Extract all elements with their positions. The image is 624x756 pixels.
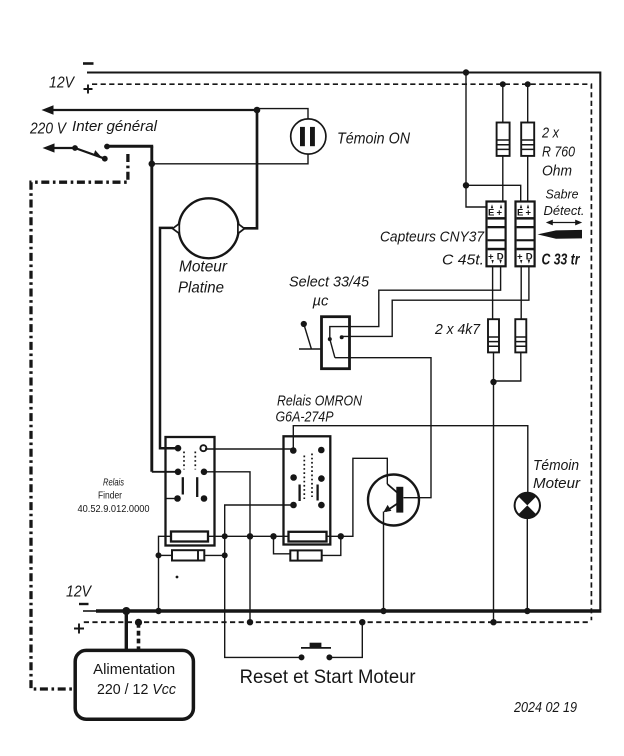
resistor R4 4k7 bbox=[515, 319, 526, 352]
lamp Temoin ON bbox=[291, 119, 326, 154]
wire motor left terminal to relay finder top-left bbox=[160, 228, 178, 448]
wire omron subrect right bbox=[322, 536, 341, 555]
svg-text:Détect.: Détect. bbox=[544, 204, 585, 218]
node lamp on - rail bbox=[524, 608, 530, 614]
wire emitter to - rail bbox=[383, 512, 385, 612]
transistor Q1 emitter lead with arrow bbox=[386, 504, 398, 512]
label Capteurs CNY37 / C 45t. / C 33 tr bbox=[380, 229, 580, 269]
arrowhead 220V feed bbox=[43, 143, 55, 152]
lamp temoin moteur bbox=[515, 493, 540, 518]
svg-text:E: E bbox=[488, 208, 494, 219]
arrowhead 12V feed bbox=[42, 105, 54, 115]
wire capteur2 D to select bbox=[342, 266, 529, 338]
node switch pole contact bbox=[72, 145, 78, 151]
relay K2 OMRON body bbox=[284, 436, 331, 544]
svg-text:Moteur: Moteur bbox=[179, 259, 228, 276]
svg-text:R 760: R 760 bbox=[542, 144, 576, 161]
wire capteur2 + to 4k7b bbox=[520, 266, 522, 319]
wire finder LL stub bbox=[166, 498, 178, 500]
switch select 33/45 body bbox=[322, 317, 350, 369]
node lamp return junction bbox=[149, 161, 156, 168]
wire motor right terminal to 12V feed bbox=[244, 110, 257, 228]
resistor R1 760 Ohm bbox=[497, 123, 510, 156]
wire select common stub bbox=[299, 348, 322, 350]
relay K1 auxiliary block bbox=[172, 550, 204, 560]
motor M1 platine body bbox=[179, 198, 239, 258]
wire capteur1 + to 4k7a bbox=[492, 266, 494, 319]
svg-text:220 / 12 Vcc: 220 / 12 Vcc bbox=[97, 682, 177, 698]
node switch blade end contact bbox=[102, 156, 108, 162]
label date bbox=[513, 700, 577, 716]
wire R1 to sensor U1 + pin bbox=[502, 156, 504, 202]
svg-text:Moteur: Moteur bbox=[533, 475, 581, 492]
node select contact 45 bbox=[340, 335, 344, 339]
wire feed to Temoin ON top bbox=[257, 109, 308, 120]
svg-text:2024 02 19: 2024 02 19 bbox=[513, 700, 577, 716]
svg-text:2 x: 2 x bbox=[541, 125, 559, 142]
node finder MR on + rail bbox=[247, 619, 253, 625]
node emitter on - rail bbox=[380, 608, 386, 614]
wire finder MR to + rail bbox=[204, 472, 250, 622]
button S2 reset/start plunger bbox=[310, 643, 322, 648]
node 12V+ bottom dashed rail bbox=[84, 621, 589, 623]
svg-text:Relais OMRON: Relais OMRON bbox=[277, 393, 362, 410]
node R1 on + rail bbox=[500, 81, 506, 87]
svg-text:Inter général: Inter général bbox=[72, 118, 158, 135]
node finder coil on - rail bbox=[155, 608, 161, 614]
node select contact 33 bbox=[328, 337, 332, 341]
node R2 on + rail bbox=[525, 81, 531, 87]
label Temoin Moteur bbox=[533, 457, 581, 492]
label Relais OMRON G6A-274P bbox=[276, 393, 363, 426]
wire button to + rail bbox=[329, 622, 362, 657]
label 2 x 4k7 bbox=[434, 321, 481, 338]
transistor Q1 base bar bbox=[396, 487, 403, 513]
svg-text:Platine: Platine bbox=[178, 280, 224, 297]
svg-text:µc: µc bbox=[313, 293, 329, 310]
svg-text:Témoin: Témoin bbox=[533, 457, 579, 474]
wire omron subrect left bbox=[274, 536, 291, 554]
motor right brush terminal bbox=[238, 224, 245, 234]
node 12V- top rail bbox=[87, 73, 600, 611]
node alimentation plus on + rail bbox=[135, 619, 142, 626]
svg-text:Select 33/45: Select 33/45 bbox=[289, 274, 370, 291]
node omron aux left junction bbox=[270, 533, 276, 539]
resistor R3 4k7 bbox=[488, 319, 499, 352]
sabre blade bbox=[538, 230, 583, 239]
node switch output contact bbox=[104, 144, 110, 150]
wire finder aux left bbox=[159, 554, 173, 556]
svg-text:220 V: 220 V bbox=[29, 121, 67, 138]
label 220 V bbox=[29, 118, 158, 138]
node button right contact bbox=[326, 654, 332, 660]
svg-text:Alimentation: Alimentation bbox=[93, 662, 175, 678]
switch blade inter general bbox=[75, 148, 105, 159]
node junction coil line x250 bbox=[247, 533, 253, 539]
plus symbol 12V top rail bbox=[84, 85, 93, 94]
wire select output to transistor base bbox=[335, 358, 431, 498]
svg-text:G6A-274P: G6A-274P bbox=[276, 409, 334, 426]
svg-text:40.52.9.012.0000: 40.52.9.012.0000 bbox=[78, 504, 150, 515]
opto sensor U2 CNY37 C33tr bbox=[516, 202, 535, 267]
svg-text:12V: 12V bbox=[66, 584, 92, 601]
wire alimentation plus to + rail dashed bbox=[137, 623, 141, 650]
relay K2 auxiliary block bbox=[290, 550, 321, 560]
node omron coil right junction bbox=[338, 533, 344, 539]
label 2x R760 Ohm bbox=[541, 125, 575, 180]
button S2 bar bbox=[301, 647, 331, 649]
wire lamp to - rail bbox=[526, 518, 528, 611]
wire finder subrect right bbox=[204, 554, 224, 556]
node E common on - rail bbox=[463, 69, 469, 75]
switch select blade bbox=[330, 339, 335, 358]
opto sensor U1 CNY37 C45t bbox=[487, 202, 506, 267]
svg-text:Reset et Start Moteur: Reset et Start Moteur bbox=[240, 666, 416, 688]
node button on + rail bbox=[359, 619, 365, 625]
node emitter common junction bbox=[463, 182, 469, 188]
node 12V+ top dashed rail bbox=[92, 84, 591, 620]
power supply alimentation 220/12Vcc box bbox=[75, 650, 193, 719]
label Sabre Detect bbox=[544, 188, 585, 219]
wire omron coil right to transistor collector bbox=[327, 458, 388, 536]
wire 220V switched line bbox=[107, 145, 153, 148]
wire coil line between relays bbox=[208, 535, 289, 537]
plus symbol 12V bottom rail bbox=[74, 624, 84, 634]
switch inter general bbox=[52, 147, 75, 149]
node button left contact bbox=[299, 654, 305, 660]
wire R4 to 4k7 common bbox=[494, 352, 521, 381]
wire finder TR to omron TL bbox=[205, 448, 293, 450]
node select uc external terminal bbox=[301, 321, 307, 327]
svg-text:+: + bbox=[526, 208, 532, 219]
svg-text:Témoin ON: Témoin ON bbox=[337, 131, 410, 148]
wire finder coil left to - rail bbox=[159, 536, 172, 611]
svg-text:E: E bbox=[517, 208, 523, 219]
motor left brush terminal bbox=[173, 224, 180, 234]
resistor R2 760 Ohm bbox=[521, 123, 534, 156]
svg-text:Relais: Relais bbox=[103, 478, 124, 489]
transistor Q1 collector lead bbox=[387, 484, 397, 493]
wire 4k7 common to + rail bbox=[493, 352, 495, 622]
transistor Q1 bbox=[368, 475, 419, 526]
wire 220V dash-dot cable to alimentation bbox=[31, 154, 128, 689]
minus symbol 12V bottom rail bbox=[79, 603, 89, 605]
node junction aux line x225 bbox=[222, 552, 228, 558]
label Relais Finder 40.52.9.012.0000 bbox=[78, 478, 150, 516]
node 4k7 common junction bbox=[490, 379, 496, 385]
minus symbol 12V top rail bbox=[83, 62, 94, 65]
label Moteur Platine bbox=[178, 259, 228, 297]
wire to capteur2 E bbox=[466, 185, 521, 201]
node junction coil line x225 bbox=[222, 533, 228, 539]
node 4k7 common on + rail bbox=[490, 619, 496, 625]
relay K1 Finder body bbox=[166, 437, 215, 546]
wire R2 to sensor U2 + pin bbox=[527, 156, 529, 202]
svg-text:Capteurs CNY37: Capteurs CNY37 bbox=[380, 229, 485, 246]
wire 12V feed arrow to lamp/motor bbox=[51, 109, 257, 111]
label Reset et Start Moteur bbox=[240, 666, 416, 688]
double arrow sabre travel bbox=[551, 222, 577, 224]
svg-text:2 x 4k7: 2 x 4k7 bbox=[434, 321, 481, 338]
wire + rail to R1 bbox=[502, 84, 504, 122]
svg-text:12V: 12V bbox=[49, 75, 75, 92]
wire Temoin ON return bbox=[153, 154, 308, 164]
wire omron TL to temoin moteur bbox=[293, 426, 528, 493]
wire to capteur1 E bbox=[466, 185, 487, 207]
wire capteur1 D to select bbox=[330, 266, 501, 339]
svg-text:C 33 tr: C 33 tr bbox=[542, 252, 581, 269]
wire select uc lead bbox=[304, 324, 312, 349]
label 12V top bbox=[49, 75, 75, 92]
relay K1 coil bbox=[171, 532, 208, 542]
svg-text:Sabre: Sabre bbox=[546, 188, 579, 202]
node alimentation minus on - rail bbox=[122, 607, 130, 615]
label Select 33/45 uc bbox=[289, 274, 370, 310]
relay K2 coil bbox=[289, 532, 327, 542]
wire alimentation minus to - rail bbox=[125, 611, 128, 650]
wire 220V vertical to relais finder bbox=[150, 146, 153, 472]
label 12V bottom bbox=[66, 584, 92, 601]
wire + rail to R2 bbox=[527, 84, 529, 122]
node 12V- bottom rail bbox=[83, 610, 97, 612]
artifact dot bbox=[176, 576, 179, 579]
svg-text:Finder: Finder bbox=[98, 491, 123, 502]
node finder aux left junction bbox=[156, 552, 162, 558]
svg-text:Ohm: Ohm bbox=[542, 163, 572, 180]
svg-text:C 45t.: C 45t. bbox=[442, 252, 484, 269]
wire E common vertical bbox=[465, 73, 467, 186]
wire omron LL to reset button bbox=[225, 505, 302, 657]
node junction feed/motor bbox=[254, 107, 261, 114]
svg-text:+: + bbox=[497, 208, 503, 219]
